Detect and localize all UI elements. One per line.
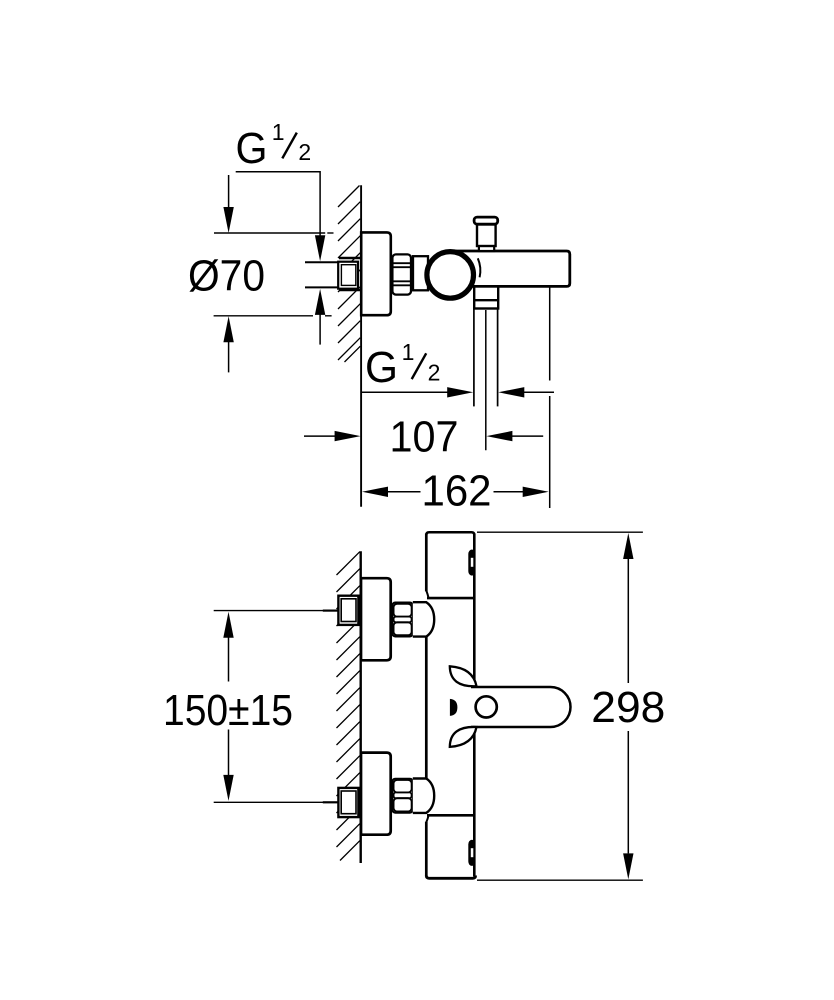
arrow up to pipe bottom <box>315 289 325 315</box>
svg-text:162: 162 <box>422 467 492 516</box>
svg-text:2: 2 <box>298 139 311 165</box>
escutcheon (side view) <box>361 232 391 315</box>
dim line G 1/2 hose <box>362 391 448 393</box>
boss line bottom <box>427 814 474 817</box>
150±15 extension line top / inlet stub top <box>214 610 339 612</box>
boss line top <box>427 597 474 600</box>
main body tube <box>452 251 570 286</box>
shower outlet block <box>474 287 498 309</box>
svg-text:298: 298 <box>591 683 665 732</box>
arc detail right of circle <box>478 258 481 277</box>
check valve body <box>413 256 428 290</box>
top edge <box>426 532 474 535</box>
svg-text:G: G <box>365 343 398 392</box>
escutcheon bottom (plan) <box>361 753 391 835</box>
dim 298 extension bottom <box>477 879 643 881</box>
dim label G 1/2 (bottom, hose) <box>365 339 440 392</box>
square union nut in wall <box>338 262 358 289</box>
square union nut bottom (plan) <box>338 788 358 817</box>
diverter knob foot <box>479 246 494 251</box>
Ø70 extension line bottom <box>214 315 313 317</box>
hex union nut (side view) <box>392 254 411 294</box>
wall line (bottom view) <box>360 551 362 863</box>
diverter knob cap <box>474 217 498 224</box>
svg-text:107: 107 <box>390 413 459 462</box>
svg-text:G: G <box>236 124 268 173</box>
lug top (black) <box>468 550 475 576</box>
square union nut top (plan) <box>338 596 358 625</box>
inlet pipe (side view) <box>305 261 339 263</box>
union dome bottom (plan) <box>413 779 434 813</box>
dim 298 extension top <box>477 531 643 533</box>
hose center extension line <box>485 310 487 450</box>
escutcheon top (plan) <box>361 578 391 660</box>
hex nut bottom (plan) <box>392 779 413 813</box>
union dome top (plan) <box>413 602 434 636</box>
dim 107 <box>304 435 336 437</box>
bottom edge <box>426 876 475 879</box>
dim bracket G 1/2 top <box>236 172 320 236</box>
right edge segments <box>473 534 476 686</box>
dim 162 <box>362 487 388 497</box>
hose lines <box>473 310 475 407</box>
flange bands at wall <box>339 257 361 260</box>
150±15 extension line bottom / inlet stub bottom <box>214 801 339 803</box>
svg-text:1: 1 <box>402 339 415 365</box>
spout circle <box>476 696 497 717</box>
leaf top <box>450 666 477 686</box>
svg-text:2: 2 <box>428 359 441 385</box>
dim 162 extension right <box>549 288 551 381</box>
hex nut top (plan) <box>392 603 413 637</box>
diverter knob stem <box>477 225 496 247</box>
spout stadium (plan) <box>471 687 571 727</box>
arrow down to pipe top <box>315 235 325 261</box>
dim label G 1/2 (top) <box>236 119 312 173</box>
wall hatching (bottom view) <box>337 552 360 861</box>
thermostat handle circle <box>427 252 474 299</box>
svg-text:Ø70: Ø70 <box>188 252 265 301</box>
wall line (top view) <box>360 185 362 507</box>
svg-text:1: 1 <box>272 119 285 145</box>
Ø70 extension line top <box>214 232 325 234</box>
svg-text:150±15: 150±15 <box>163 686 293 735</box>
black D-mark <box>450 699 458 716</box>
dim 298 <box>623 533 633 559</box>
lug bottom (black) <box>468 840 475 866</box>
leaf bottom <box>450 727 477 747</box>
left edge segments <box>425 534 428 592</box>
wall hatching (top view) <box>338 186 360 363</box>
dim Ø70 outside arrows <box>228 175 230 208</box>
dim 150±15 <box>223 612 233 638</box>
